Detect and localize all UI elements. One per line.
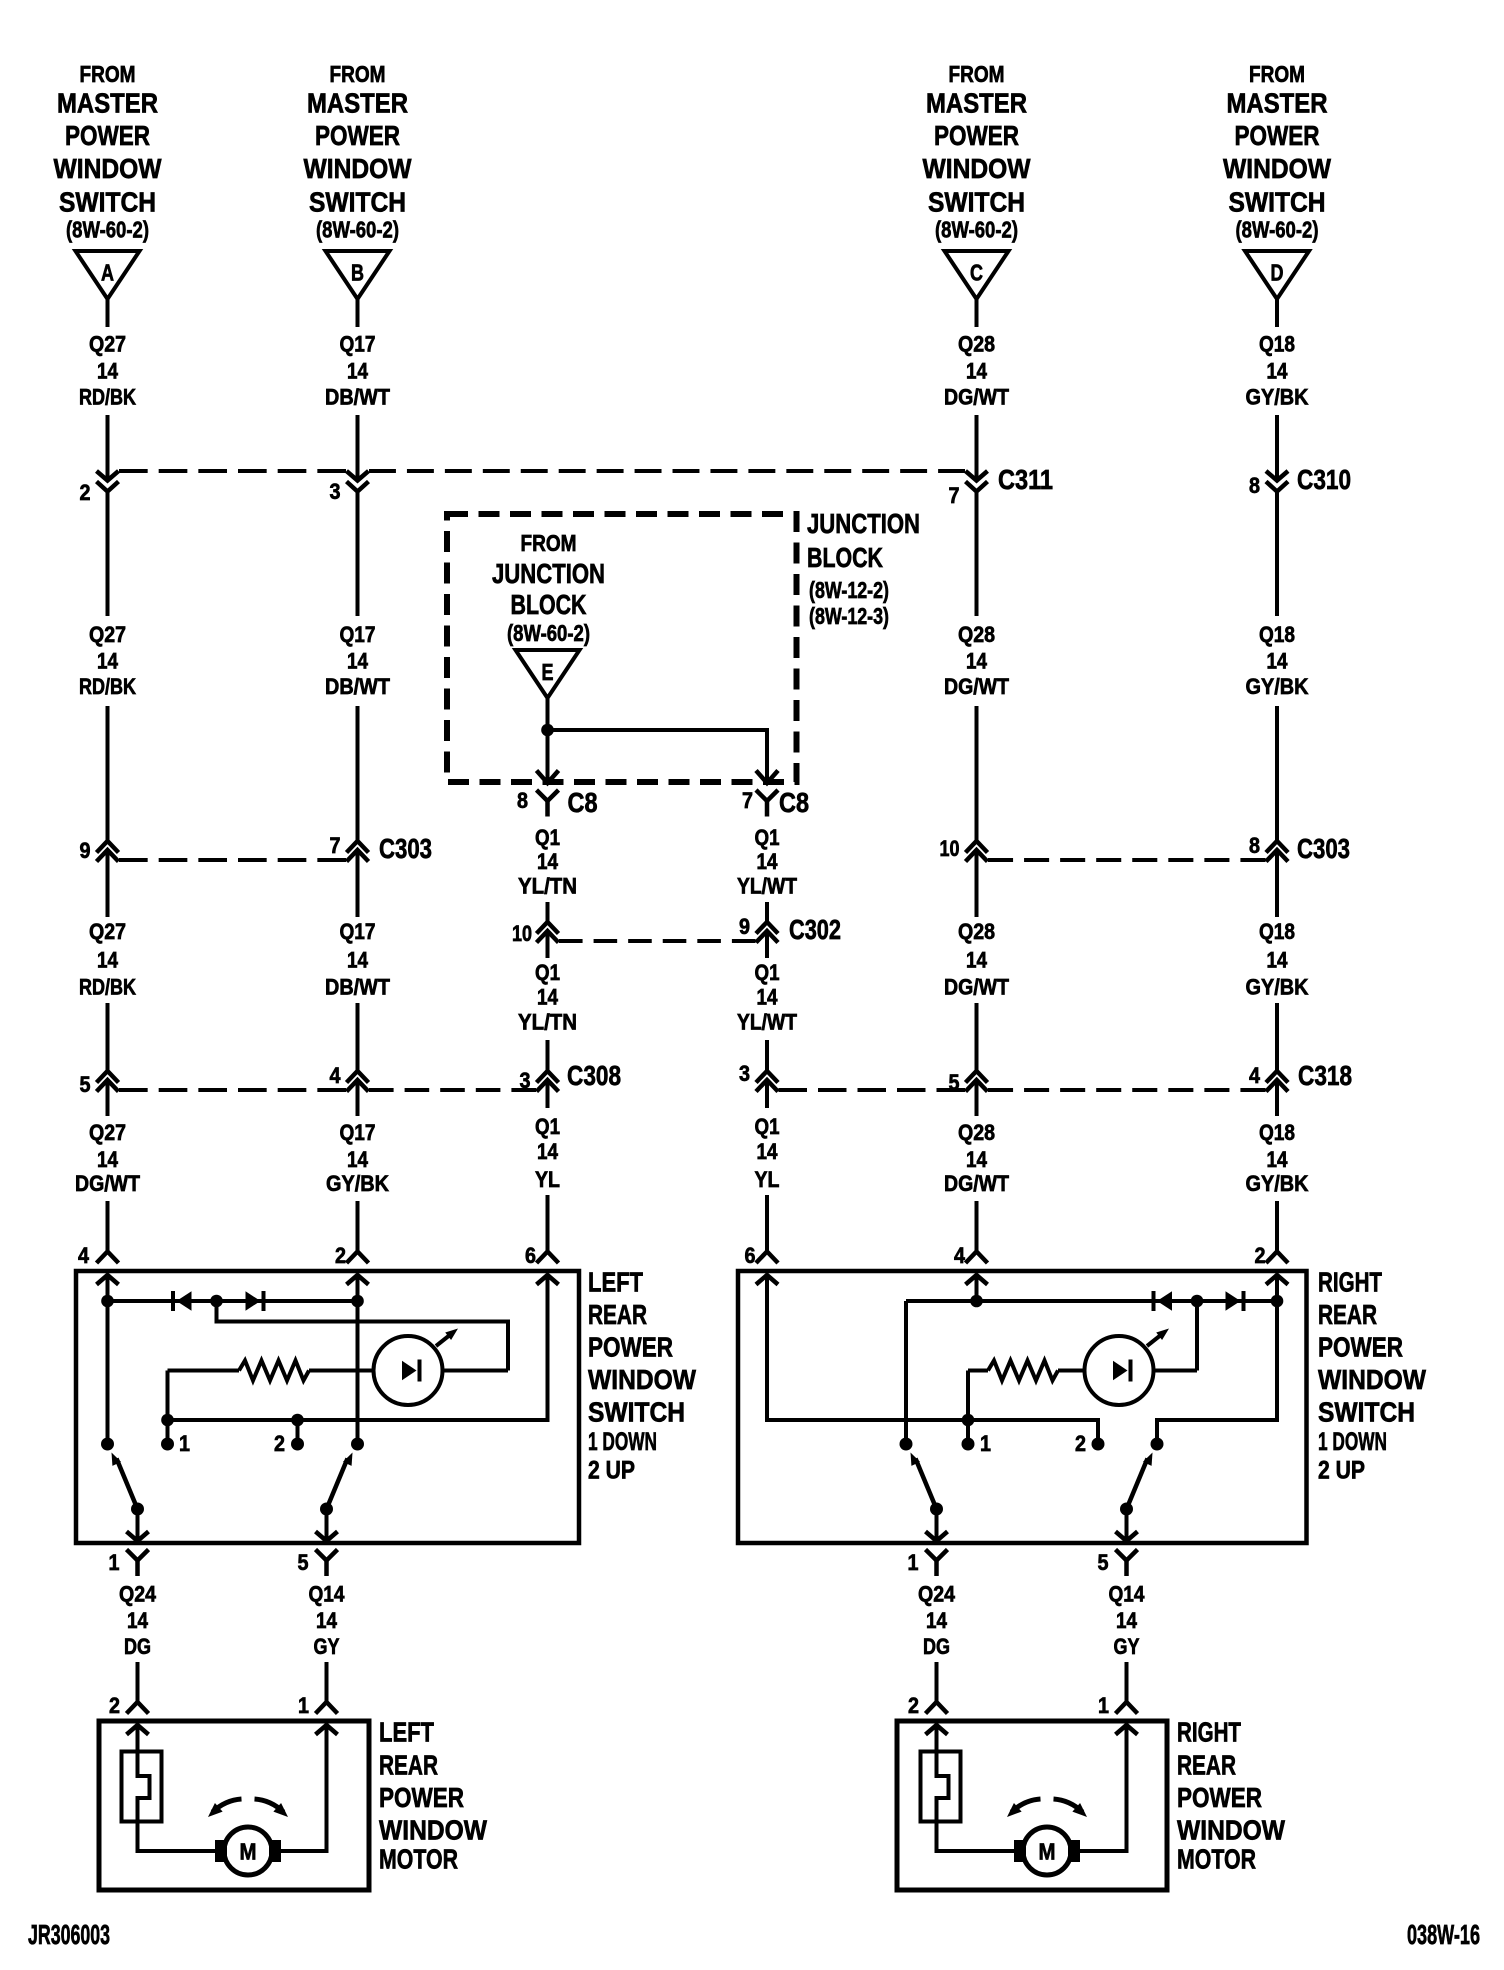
pin 6 connector fork at switch box top — [537, 1252, 559, 1264]
svg-text:BLOCK: BLOCK — [807, 542, 883, 573]
blade pivot wire to pin 1 right switch — [935, 1509, 939, 1541]
svg-text:JUNCTION: JUNCTION — [807, 508, 920, 539]
wire continues below connector C302 left — [546, 932, 550, 958]
svg-text:1 DOWN: 1 DOWN — [1318, 1428, 1387, 1456]
contact 1 dot right switch — [962, 1438, 975, 1451]
svg-text:SWITCH: SWITCH — [59, 187, 156, 218]
svg-text:7: 7 — [742, 788, 753, 813]
resistor right switch — [988, 1361, 1058, 1381]
pin 2 arrow inside switch box — [347, 1275, 369, 1285]
left switch pin 4 internal wire down to down-contact — [106, 1275, 110, 1444]
svg-text:D: D — [1271, 260, 1284, 286]
motor rotation arc left with arrowhead — [213, 1799, 242, 1812]
down-contact dot right switch — [900, 1438, 913, 1451]
dashed connector line C303 between branch A and branch B — [119, 858, 346, 862]
wire Q27 into connector C308 pin 5 — [106, 1003, 110, 1071]
svg-text:5: 5 — [1098, 1550, 1109, 1575]
left switch diode row wire — [108, 1299, 358, 1303]
wire Q18 into connector C303 pin 8 — [1275, 706, 1279, 841]
contact 1 stub — [166, 1420, 170, 1444]
circuit breaker rectangle right motor — [921, 1752, 961, 1822]
svg-text:Q17: Q17 — [340, 622, 376, 647]
wire continues below connector — [356, 851, 360, 917]
dashed connector line C303 between branch C and branch D — [988, 858, 1266, 862]
svg-text:FROM: FROM — [330, 61, 386, 87]
svg-text:C8: C8 — [568, 787, 598, 818]
wire Q1 YL/WT into connector C302 pin 9 — [765, 902, 769, 922]
svg-text:6: 6 — [745, 1243, 756, 1268]
connector C8 pin 8 fork — [537, 790, 559, 801]
wire stem below triangle B — [356, 299, 360, 327]
junction dot feed row contact 1 right switch — [962, 1414, 975, 1427]
wire stem below triangle E down through junction block — [546, 698, 550, 783]
wire Q14 down to motor — [325, 1662, 329, 1702]
motor right terminal block — [1068, 1840, 1080, 1862]
right rear power window switch box — [738, 1271, 1307, 1543]
pin 2 connector fork at switch box top — [1266, 1252, 1288, 1264]
right motor pin 1 arrow inside motor box — [1116, 1725, 1138, 1735]
pin 4 arrow inside switch box — [966, 1275, 988, 1285]
svg-text:1: 1 — [109, 1550, 120, 1575]
in-line connector C308 chevron at x=107.5 — [97, 1080, 119, 1092]
svg-text:14: 14 — [347, 1147, 369, 1172]
svg-text:Q27: Q27 — [89, 622, 126, 647]
svg-text:1: 1 — [179, 1431, 190, 1456]
in-line connector C303 chevron at x=1277.0 — [1266, 850, 1288, 862]
wire Q18 GY/BK to right switch pin 2 — [1275, 1201, 1279, 1252]
svg-text:RD/BK: RD/BK — [79, 674, 136, 699]
LED row wire through resistor right switch — [968, 1369, 988, 1373]
in-line connector C318 chevron at x=767.0 — [756, 1080, 778, 1092]
svg-text:DG/WT: DG/WT — [944, 1171, 1009, 1196]
svg-text:YL: YL — [755, 1167, 780, 1192]
svg-text:POWER: POWER — [1177, 1782, 1262, 1813]
svg-text:1 DOWN: 1 DOWN — [588, 1428, 657, 1456]
contact 2 dot right switch — [1092, 1438, 1105, 1451]
svg-text:2: 2 — [908, 1693, 919, 1718]
left switch pin 2 internal wire down to up-contact — [356, 1275, 360, 1444]
in-line connector C318 chevron at x=976.5 — [966, 1080, 988, 1092]
svg-text:9: 9 — [80, 838, 91, 863]
svg-text:(8W-60-2): (8W-60-2) — [316, 217, 399, 243]
svg-text:14: 14 — [97, 1147, 119, 1172]
svg-text:2: 2 — [80, 480, 91, 505]
wire Q28 into connector C311 pin 7 — [975, 415, 979, 479]
svg-text:LEFT: LEFT — [379, 1717, 434, 1748]
svg-text:1: 1 — [1098, 1693, 1109, 1718]
in-line connector C303 chevron at x=976.5 — [966, 850, 988, 862]
dashed connector line C308 between branch B and branch E — [369, 1088, 536, 1092]
diode D2 left switch (pointing right) — [246, 1291, 261, 1310]
svg-text:Q1: Q1 — [755, 1114, 780, 1139]
svg-text:GY/BK: GY/BK — [1246, 385, 1309, 410]
dashed connector line C318 between branch F and branch C — [779, 1088, 966, 1092]
svg-text:Q1: Q1 — [535, 960, 560, 985]
blade pivot dot pin 5 right switch — [1120, 1503, 1133, 1516]
svg-text:JUNCTION: JUNCTION — [492, 558, 605, 589]
svg-text:RIGHT: RIGHT — [1177, 1717, 1241, 1748]
wire resistor to LED circle right switch — [1058, 1369, 1085, 1373]
svg-text:SWITCH: SWITCH — [1229, 187, 1326, 218]
svg-text:(8W-60-2): (8W-60-2) — [935, 217, 1018, 243]
junction dot pin 4 / diode row — [101, 1295, 114, 1308]
wire continues below connector — [356, 493, 360, 617]
wire from diode junction to LED loop — [217, 1301, 509, 1371]
arrow into junction block edge at branch F — [756, 771, 778, 784]
svg-text:DG/WT: DG/WT — [944, 975, 1009, 1000]
left rear power window motor box — [99, 1721, 369, 1890]
wire continues below connector — [975, 851, 979, 917]
svg-text:POWER: POWER — [1318, 1332, 1403, 1363]
svg-text:C311: C311 — [998, 464, 1053, 495]
svg-text:14: 14 — [537, 1139, 559, 1164]
svg-text:E: E — [542, 659, 554, 685]
junction dot between diodes — [210, 1295, 223, 1308]
svg-text:DG/WT: DG/WT — [75, 1171, 140, 1196]
connector triangle A (from master power window switch) — [76, 251, 140, 299]
svg-text:GY: GY — [1114, 1634, 1140, 1659]
svg-text:Q17: Q17 — [340, 1120, 376, 1145]
right switch pin 6 internal wire and feed row — [767, 1275, 1098, 1444]
svg-text:14: 14 — [1267, 649, 1289, 674]
svg-text:WINDOW: WINDOW — [1318, 1364, 1426, 1395]
wire Q28 into connector C303 pin 10 — [975, 706, 979, 841]
svg-text:REAR: REAR — [379, 1750, 438, 1781]
connector triangle D (from master power window switch) — [1245, 251, 1309, 299]
contact 1 stub right switch — [966, 1420, 970, 1444]
junction dot feed row contact 2 — [291, 1414, 304, 1427]
svg-text:Q27: Q27 — [89, 332, 126, 357]
LED indicator circle right switch — [1085, 1336, 1154, 1405]
LED indicator circle left switch — [374, 1336, 443, 1405]
wire resistor branch down to feed row — [166, 1371, 170, 1421]
circuit breaker element and wire left motor pin 2 to motor — [138, 1725, 216, 1851]
left rear power window switch box — [76, 1271, 579, 1543]
svg-text:2: 2 — [274, 1431, 285, 1456]
wire continues below connector — [1275, 1081, 1279, 1116]
svg-text:(8W-60-2): (8W-60-2) — [1236, 217, 1319, 243]
junction dot between diodes right switch — [1191, 1295, 1204, 1308]
svg-text:DB/WT: DB/WT — [325, 385, 391, 410]
svg-text:Q28: Q28 — [958, 919, 995, 944]
svg-text:GY: GY — [314, 1634, 340, 1659]
dashed connector line C318 between branch C and branch D — [988, 1088, 1266, 1092]
svg-text:4: 4 — [1249, 1063, 1261, 1088]
in-line connector C303 chevron at x=107.5 — [97, 850, 119, 862]
connector C8 pin 7 fork — [756, 790, 778, 801]
motor rotation arc right with arrowhead — [255, 1799, 284, 1812]
svg-text:14: 14 — [966, 1147, 988, 1172]
svg-text:14: 14 — [1116, 1608, 1138, 1633]
svg-text:2: 2 — [335, 1243, 346, 1268]
svg-text:8: 8 — [1249, 833, 1260, 858]
wire Q17 into connector C308 pin 4 — [356, 1003, 360, 1071]
wire resistor branch down to feed row right switch — [966, 1371, 970, 1421]
svg-text:14: 14 — [347, 948, 369, 973]
svg-text:3: 3 — [739, 1061, 750, 1086]
wire LED circle to loop corner — [443, 1369, 509, 1373]
wire stem below triangle C — [975, 299, 979, 327]
blade pivot dot pin 1 — [131, 1503, 144, 1516]
svg-text:2 UP: 2 UP — [1318, 1457, 1365, 1485]
svg-text:5: 5 — [298, 1550, 309, 1575]
right motor pin 2 connector fork — [926, 1702, 948, 1714]
arrow into junction block edge at branch E — [537, 771, 559, 784]
up-contact dot left switch — [351, 1438, 364, 1451]
svg-text:DG/WT: DG/WT — [944, 385, 1009, 410]
in-line connector C308 chevron at x=547.5 — [537, 1080, 559, 1092]
left motor pin 1 arrow inside motor box — [316, 1725, 338, 1735]
svg-text:2: 2 — [109, 1693, 120, 1718]
wire continues below connector — [1275, 851, 1279, 917]
svg-text:Q18: Q18 — [1259, 622, 1295, 647]
svg-text:14: 14 — [97, 359, 119, 384]
svg-text:SWITCH: SWITCH — [309, 187, 406, 218]
connector triangle C (from master power window switch) — [945, 251, 1009, 299]
svg-text:POWER: POWER — [1235, 120, 1320, 151]
svg-text:8: 8 — [517, 788, 528, 813]
svg-text:C302: C302 — [789, 914, 841, 945]
svg-text:MOTOR: MOTOR — [1177, 1844, 1256, 1875]
svg-text:JR306003: JR306003 — [28, 1919, 110, 1950]
pin 1 fork below switch box (left switch pin 1 output) — [127, 1550, 149, 1561]
pin 2 arrow inside switch box — [1266, 1275, 1288, 1285]
svg-text:MASTER: MASTER — [926, 88, 1027, 119]
LED light arrow left switch — [436, 1333, 453, 1347]
wire resistor to LED circle — [309, 1369, 374, 1373]
motor rotation arc right with arrowhead — [1054, 1799, 1083, 1812]
svg-text:Q18: Q18 — [1259, 1120, 1295, 1145]
resistor left switch — [239, 1361, 309, 1381]
wire continues below connector — [106, 1081, 110, 1116]
svg-text:POWER: POWER — [934, 120, 1019, 151]
svg-text:(8W-12-2): (8W-12-2) — [809, 577, 889, 603]
connector triangle E (from junction block) — [516, 650, 580, 698]
right rear power window motor box — [897, 1721, 1167, 1890]
down-contact dot left switch — [101, 1438, 114, 1451]
junction dot pin 2 / diode row right switch — [1271, 1295, 1284, 1308]
svg-text:14: 14 — [757, 1139, 779, 1164]
svg-text:C303: C303 — [1297, 833, 1350, 864]
in-line connector C311 chevron at x=357.5 — [347, 471, 369, 481]
svg-text:Q1: Q1 — [535, 825, 560, 850]
junction block dashed boundary (8W-12-2)(8W-12-3) — [447, 514, 797, 782]
switch blade up (pin 5) left switch — [327, 1459, 348, 1510]
svg-text:SWITCH: SWITCH — [1318, 1397, 1415, 1428]
wire Q27 into connector C311 pin 2 — [106, 415, 110, 479]
wire Q18 into connector C318 pin 4 — [1275, 1003, 1279, 1071]
svg-text:1: 1 — [980, 1431, 991, 1456]
svg-text:14: 14 — [926, 1608, 948, 1633]
left motor pin 2 arrow inside motor box — [127, 1725, 149, 1735]
svg-text:WINDOW: WINDOW — [304, 153, 412, 184]
svg-text:14: 14 — [1267, 1147, 1289, 1172]
svg-text:YL: YL — [535, 1167, 560, 1192]
wire Q28 DG/WT to right switch pin 4 — [975, 1201, 979, 1252]
svg-text:14: 14 — [966, 359, 988, 384]
svg-text:4: 4 — [330, 1063, 342, 1088]
svg-text:(8W-60-2): (8W-60-2) — [507, 620, 590, 646]
wire Q27 DG/WT to left switch pin 4 — [106, 1201, 110, 1252]
pin 4 connector fork at switch box top — [97, 1252, 119, 1264]
svg-text:2: 2 — [1255, 1243, 1266, 1268]
wire Q18 into connector C310 pin 8 — [1275, 415, 1279, 479]
svg-text:Q14: Q14 — [1109, 1582, 1146, 1607]
motor left terminal block — [1014, 1840, 1026, 1862]
svg-text:MOTOR: MOTOR — [379, 1844, 458, 1875]
wire Q1 YL/TN into connector C302 pin 10 — [546, 902, 550, 922]
svg-text:SWITCH: SWITCH — [588, 1397, 685, 1428]
pin 6 arrow inside switch box — [756, 1275, 778, 1285]
pin 4 connector fork at switch box top — [966, 1252, 988, 1264]
pin 1 arrow at box bottom — [127, 1532, 149, 1542]
svg-text:DG: DG — [923, 1634, 950, 1659]
svg-text:Q24: Q24 — [119, 1582, 157, 1607]
wire Q17 into connector C303 pin 7 — [356, 706, 360, 841]
dashed connector line C311 between branch A and branch B — [119, 469, 346, 473]
motor rotation arc left with arrowhead — [1012, 1799, 1041, 1812]
left switch pin 6 internal wire and feed row — [168, 1275, 548, 1420]
svg-text:MASTER: MASTER — [57, 88, 158, 119]
svg-text:14: 14 — [97, 649, 119, 674]
svg-text:GY/BK: GY/BK — [1246, 674, 1309, 699]
wire Q1 into connector C308 pin 3 — [546, 1040, 550, 1071]
blade pivot dot pin 5 — [320, 1503, 333, 1516]
svg-text:(8W-60-2): (8W-60-2) — [66, 217, 149, 243]
svg-text:C303: C303 — [379, 833, 432, 864]
svg-text:14: 14 — [1267, 948, 1289, 973]
svg-text:YL/TN: YL/TN — [518, 874, 577, 899]
svg-text:C308: C308 — [567, 1060, 621, 1091]
LED diode symbol right switch — [1113, 1361, 1128, 1381]
wire Q24 down to motor — [136, 1662, 140, 1702]
svg-text:Q27: Q27 — [89, 1120, 126, 1145]
svg-text:Q28: Q28 — [958, 622, 995, 647]
svg-text:9: 9 — [739, 914, 750, 939]
svg-text:Q17: Q17 — [340, 332, 376, 357]
left motor pin 1 connector fork — [316, 1702, 338, 1714]
in-line connector C302 chevron at branch F — [756, 931, 778, 943]
svg-text:Q18: Q18 — [1259, 919, 1295, 944]
svg-text:4: 4 — [954, 1243, 966, 1268]
svg-text:Q27: Q27 — [89, 919, 126, 944]
svg-text:1: 1 — [298, 1693, 309, 1718]
diode D2 right switch (pointing right) — [1226, 1291, 1241, 1310]
svg-text:Q1: Q1 — [755, 960, 780, 985]
wire continues below connector — [106, 851, 110, 917]
svg-text:(8W-12-3): (8W-12-3) — [809, 603, 889, 629]
svg-text:Q1: Q1 — [755, 825, 780, 850]
wire Q17 GY/BK to left switch pin 2 — [356, 1201, 360, 1252]
blade pivot dot pin 1 right switch — [930, 1503, 943, 1516]
svg-text:Q18: Q18 — [1259, 332, 1295, 357]
right motor pin 1 connector fork — [1116, 1702, 1138, 1714]
junction dot pin 2 / diode row — [351, 1295, 364, 1308]
pin 5 arrow at box bottom — [316, 1532, 338, 1542]
blade pivot wire to pin 5 right switch — [1125, 1509, 1129, 1541]
svg-text:WINDOW: WINDOW — [379, 1815, 487, 1846]
svg-text:RD/BK: RD/BK — [79, 975, 136, 1000]
svg-text:14: 14 — [127, 1608, 149, 1633]
svg-text:WINDOW: WINDOW — [588, 1364, 696, 1395]
svg-text:REAR: REAR — [1177, 1750, 1236, 1781]
wire Q14 down to motor — [1125, 1662, 1129, 1702]
svg-text:B: B — [351, 260, 364, 286]
right switch pin 2 internal wire down feed — [1157, 1275, 1277, 1444]
wire continues below connector — [106, 493, 110, 617]
svg-text:YL/TN: YL/TN — [518, 1010, 577, 1035]
pin 2 connector fork at switch box top — [347, 1252, 369, 1264]
wire LED circle to diode-junction drop right switch — [1154, 1369, 1198, 1373]
svg-text:14: 14 — [966, 948, 988, 973]
wire continues below connector — [765, 1081, 769, 1108]
svg-text:M: M — [1039, 1839, 1056, 1865]
pin 5 fork below switch box (left switch pin 5 output) — [316, 1550, 338, 1561]
right switch diode row wire — [906, 1299, 1277, 1303]
wire Q1 YL to right switch pin 6 — [765, 1195, 769, 1252]
svg-text:FROM: FROM — [1249, 61, 1305, 87]
svg-text:DB/WT: DB/WT — [325, 975, 391, 1000]
connector triangle B (from master power window switch) — [326, 251, 390, 299]
splice junction dot inside junction block — [541, 724, 554, 737]
pin 6 arrow inside switch box — [537, 1275, 559, 1285]
svg-text:WINDOW: WINDOW — [923, 153, 1031, 184]
motor armature circle right — [1023, 1827, 1071, 1875]
in-line connector C318 chevron at x=1277.0 — [1266, 1080, 1288, 1092]
svg-text:7: 7 — [330, 833, 341, 858]
switch blade down (pin 1) right switch — [916, 1459, 937, 1510]
wire diode row end down to down-contact right switch — [904, 1301, 908, 1444]
svg-text:C310: C310 — [1297, 464, 1351, 495]
svg-text:M: M — [240, 1839, 257, 1865]
svg-text:DG/WT: DG/WT — [944, 674, 1009, 699]
svg-text:6: 6 — [525, 1243, 536, 1268]
wire stem below triangle A — [106, 299, 110, 327]
contact 1 dot — [161, 1438, 174, 1451]
wire from splice to right branch inside junction block — [548, 730, 768, 781]
svg-text:8: 8 — [1249, 473, 1260, 498]
motor left terminal block — [215, 1840, 227, 1862]
svg-text:14: 14 — [537, 985, 559, 1010]
svg-text:REAR: REAR — [588, 1299, 647, 1330]
right motor pin 2 arrow inside motor box — [926, 1725, 948, 1735]
in-line connector C308 chevron at x=357.5 — [347, 1080, 369, 1092]
wire Q17 into connector C311 pin 3 — [356, 415, 360, 479]
pin 5 fork below switch box (right switch pin 5 output) — [1116, 1550, 1138, 1561]
svg-text:2: 2 — [1075, 1431, 1086, 1456]
in-line connector C311 chevron at x=107.5 — [97, 471, 119, 481]
wire Q1 into connector C318 pin 3 — [765, 1040, 769, 1071]
svg-text:14: 14 — [757, 985, 779, 1010]
svg-text:14: 14 — [347, 359, 369, 384]
LED light arrow right switch — [1147, 1333, 1164, 1347]
svg-text:7: 7 — [949, 483, 960, 508]
svg-text:A: A — [101, 260, 114, 286]
wire Q28 into connector C318 pin 5 — [975, 1003, 979, 1071]
svg-text:RIGHT: RIGHT — [1318, 1267, 1382, 1298]
svg-text:3: 3 — [330, 479, 341, 504]
pin 6 connector fork at switch box top — [756, 1252, 778, 1264]
wire motor to right pin 1 — [1080, 1725, 1127, 1851]
wire stem below triangle D — [1275, 299, 1279, 327]
svg-text:FROM: FROM — [80, 61, 136, 87]
blade pivot wire to pin 1 — [136, 1509, 140, 1541]
svg-text:GY/BK: GY/BK — [326, 1171, 389, 1196]
contact 2 stub — [296, 1420, 300, 1444]
svg-text:14: 14 — [97, 948, 119, 973]
svg-text:14: 14 — [1267, 359, 1289, 384]
svg-text:10: 10 — [940, 836, 960, 861]
